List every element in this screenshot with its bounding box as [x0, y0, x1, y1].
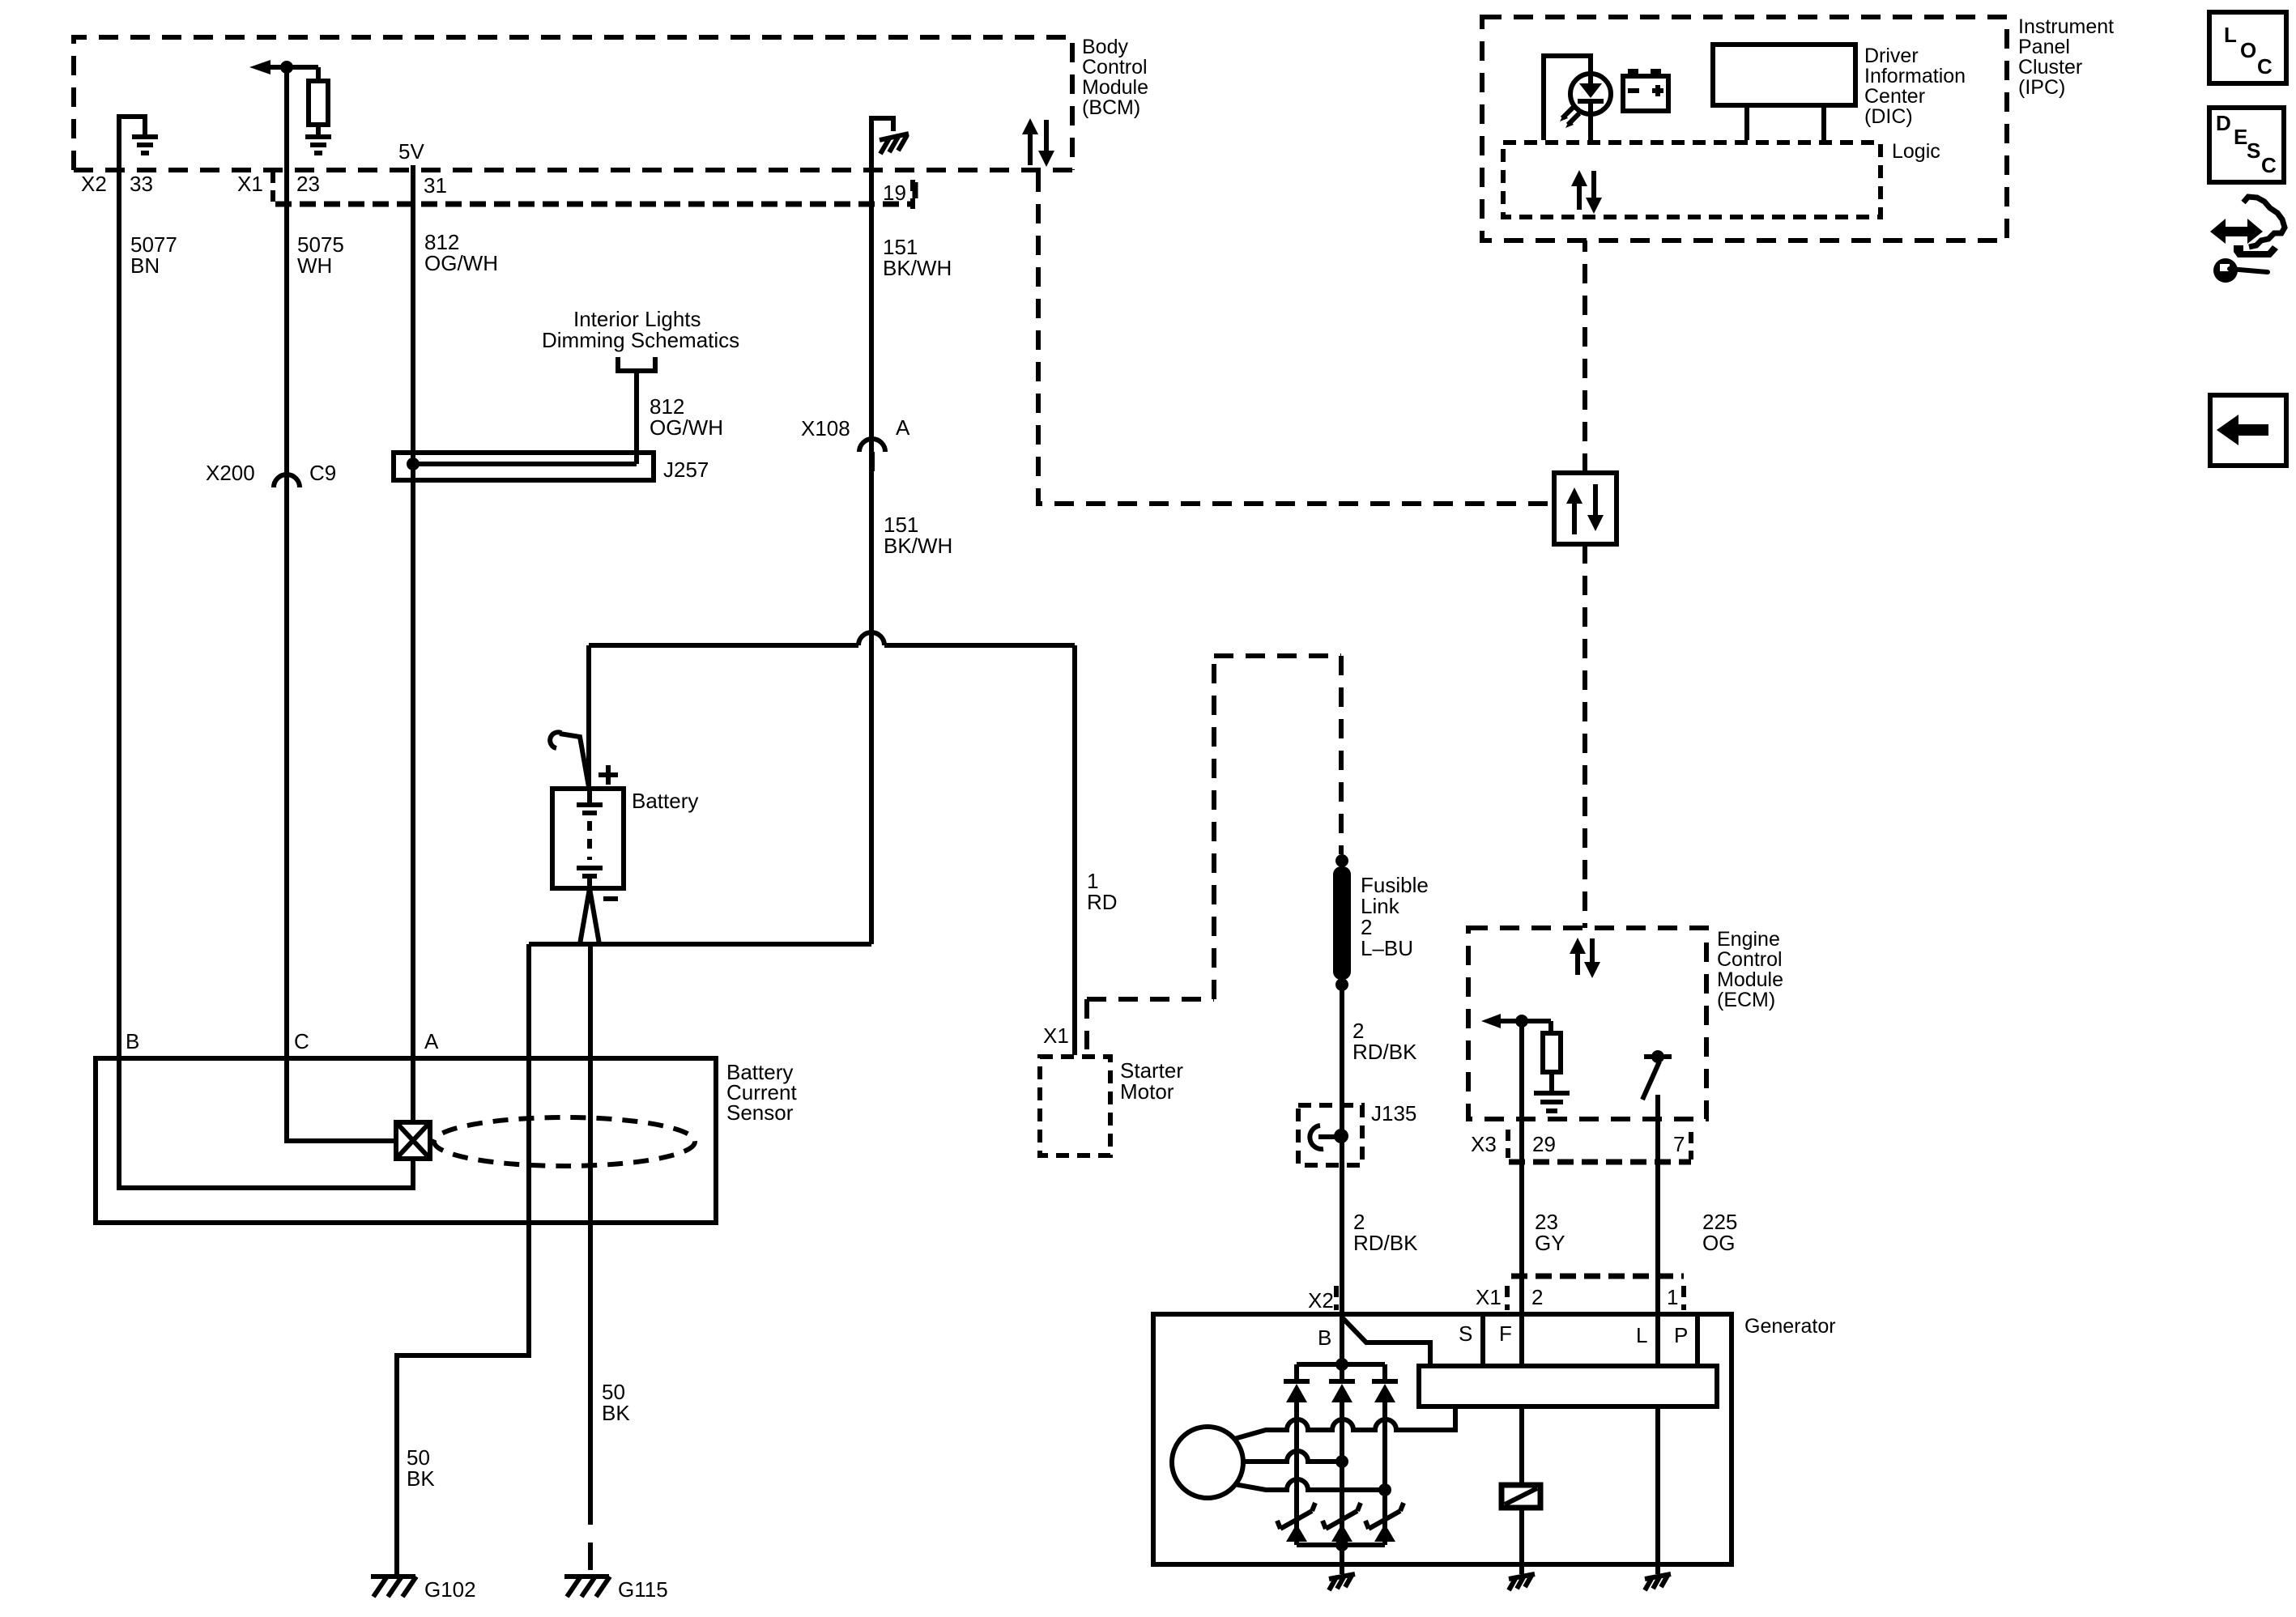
svg-text:(DIC): (DIC) [1864, 105, 1913, 128]
junction node phase bottom at diode 3 [1378, 1483, 1391, 1496]
svg-text:L: L [1636, 1323, 1647, 1347]
regulator bar [1419, 1366, 1717, 1406]
svg-text:Control: Control [1082, 56, 1148, 79]
connector stub at pin 7 [1689, 1132, 1693, 1160]
component box Starter Motor (dashed) [1040, 1057, 1110, 1155]
label 5077 BN [130, 232, 177, 278]
svg-text:C: C [2257, 54, 2273, 79]
diode 2 (middle) [1329, 1364, 1355, 1545]
svg-text:G102: G102 [424, 1577, 476, 1602]
wire F ground drop [1519, 1562, 1524, 1574]
svg-text:G115: G115 [618, 1577, 668, 1602]
wire sensor internal C to hall element [287, 1058, 396, 1141]
svg-text:J135: J135 [1371, 1101, 1416, 1126]
wire F through lamp to ground [1519, 1406, 1524, 1562]
junction node B at top bus [1335, 1358, 1348, 1371]
LED emission arrows [1560, 107, 1579, 128]
label 23 GY [1535, 1210, 1565, 1255]
svg-text:33: 33 [130, 172, 153, 196]
label Instrument Panel Cluster (IPC) [2018, 15, 2114, 99]
junction node phase mid at diode 2 [1335, 1455, 1348, 1468]
module box IPC (dashed) [1482, 17, 2007, 240]
svg-text:X108: X108 [801, 416, 850, 440]
wire 151 BK/WH (BCM pin 19 down) [869, 170, 874, 944]
svg-text:L: L [2224, 23, 2237, 47]
wire sensor internal B loop to hall element [119, 1058, 413, 1188]
wire telltale loop left leg [1544, 56, 1591, 140]
wire 812 OG/WH drop from fork to J257 [634, 371, 639, 464]
svg-text:WH: WH [297, 253, 332, 278]
component box Battery Current Sensor [96, 1058, 716, 1223]
connector stub X2 (dashed) [1334, 1286, 1339, 1310]
battery icon in IPC [1623, 69, 1668, 111]
wire 812 OG/WH (X1-31 to sensor A) [411, 165, 415, 1058]
wire 5077 BN (X2-33 to sensor B) [117, 170, 121, 1058]
svg-text:Generator: Generator [1744, 1315, 1836, 1338]
wire battery positive drop [586, 645, 591, 789]
wire dashed portion of G115 cable [588, 1497, 593, 1574]
svg-text:Module: Module [1717, 968, 1783, 991]
svg-text:BK: BK [602, 1401, 630, 1425]
arrows up/down at ECM data port [1570, 938, 1600, 978]
DIC display box [1713, 45, 1855, 140]
icon box LOC [2209, 12, 2286, 83]
wire dashed route starter to fusible link [1087, 656, 1341, 1049]
stator phase middle [1243, 1451, 1342, 1462]
switch (generator L monitor) in ECM [1642, 1050, 1672, 1119]
label Battery Current Sensor [726, 1060, 797, 1125]
svg-text:O: O [2240, 38, 2256, 62]
label 2 RD/BK (upper) [1352, 1019, 1417, 1064]
sense loop ellipse (dashed) [434, 1117, 695, 1166]
clip symbol on battery positive cable [550, 732, 589, 787]
svg-text:31: 31 [424, 173, 447, 198]
svg-text:E: E [2234, 125, 2247, 149]
label Body Control Module (BCM) [1082, 36, 1148, 119]
stator phase top (to regulator) [1234, 1406, 1455, 1439]
connector line BCM X1 (dotted) [275, 202, 915, 207]
svg-text:(ECM): (ECM) [1717, 989, 1775, 1011]
svg-text:RD/BK: RD/BK [1353, 1231, 1418, 1255]
svg-text:2: 2 [1531, 1285, 1543, 1309]
wire 5075 WH (X1-23 to sensor C) [284, 170, 289, 1058]
ground G102 symbol [371, 1577, 416, 1597]
wire B column into rectifier [1340, 1317, 1344, 1364]
svg-text:Instrument: Instrument [2018, 15, 2114, 38]
diode 3 (right) [1372, 1364, 1398, 1545]
module box BCM (Body Control Module, dashed) [74, 37, 1072, 170]
wire B ground drop [1340, 1545, 1344, 1574]
junction node on 5075 wire [280, 61, 293, 74]
wire dashed data line BCM to gateway [1038, 172, 1552, 504]
wire L/P drop to regulator [1655, 1314, 1660, 1366]
junction node fusible link top [1335, 854, 1348, 867]
resistor ECM pull-up [1543, 1021, 1561, 1072]
wire 1 RD (to starter motor) [1072, 645, 1077, 1055]
arrow ECM output (points left) [1481, 1014, 1551, 1028]
connector stub at pin 19 (dashed) [910, 180, 915, 209]
svg-text:S: S [2247, 138, 2260, 163]
hall element (X in box) [396, 1122, 430, 1159]
label 151 BK/WH (upper) [883, 235, 952, 280]
svg-text:Battery: Battery [632, 789, 698, 813]
svg-text:5V: 5V [398, 139, 424, 164]
connector line generator X1 (dotted) [1507, 1276, 1684, 1310]
label Starter Motor [1120, 1058, 1183, 1104]
icon box DESC [2209, 108, 2284, 182]
wire sensor internal A to hall element [411, 1058, 415, 1122]
label 5075 WH [297, 232, 344, 278]
svg-text:X200: X200 [206, 461, 255, 485]
wire dashed data line gateway to IPC [1582, 240, 1587, 473]
stator phase bottom [1234, 1479, 1385, 1490]
wire 5075 WH inside BCM [284, 67, 289, 170]
indicator LED telltale [1570, 74, 1611, 140]
wire BCM internal jog pin 19 [871, 118, 893, 170]
connector X108 arc on 151 wire [859, 439, 885, 471]
svg-text:GY: GY [1535, 1231, 1565, 1255]
junction node fusible link bottom [1335, 978, 1348, 991]
svg-text:S: S [1459, 1321, 1472, 1346]
wire ground cable left (to G102) [397, 944, 529, 1574]
fusible link element [1333, 866, 1351, 980]
svg-text:(BCM): (BCM) [1082, 96, 1140, 119]
svg-text:Logic: Logic [1892, 140, 1940, 163]
svg-text:29: 29 [1532, 1132, 1556, 1156]
wire negative bus horizontal [529, 942, 871, 947]
svg-text:Center: Center [1864, 85, 1925, 108]
svg-text:A: A [896, 415, 910, 440]
arrows up/down at BCM serial data port [1022, 118, 1054, 167]
label 50 BK (left cable) [407, 1445, 435, 1491]
component box Generator [1153, 1314, 1732, 1564]
svg-text:X3: X3 [1471, 1132, 1497, 1156]
svg-text:X1: X1 [237, 172, 263, 196]
svg-text:Panel: Panel [2018, 36, 2070, 58]
svg-text:C: C [2261, 153, 2277, 177]
wire B to S sense tap [1343, 1318, 1430, 1366]
label Fusible Link 2 L-BU [1361, 873, 1429, 960]
module box ECM (dashed) [1468, 928, 1706, 1119]
svg-text:OG: OG [1702, 1231, 1735, 1255]
zener diode 3 [1365, 1503, 1404, 1542]
wire ground cable right (to G115) [588, 944, 593, 1497]
svg-text:X2: X2 [1308, 1288, 1334, 1313]
wire BCM internal jog to ground (pin 33 net) [119, 117, 145, 170]
pin divider right of P [1695, 1317, 1700, 1366]
connector stub bottom at 19 [913, 182, 918, 204]
svg-text:OG/WH: OG/WH [424, 251, 498, 275]
svg-text:BK/WH: BK/WH [884, 534, 952, 558]
svg-text:Body: Body [1082, 36, 1128, 58]
connector X200 arc on 5075 wire [274, 474, 300, 504]
svg-text:Module: Module [1082, 76, 1148, 99]
svg-text:Driver: Driver [1864, 45, 1919, 67]
svg-text:B: B [126, 1029, 139, 1053]
ground earth symbol under ECM resistor [1534, 1072, 1570, 1111]
svg-text:Engine: Engine [1717, 928, 1780, 951]
wire 23 GY (ECM to generator F) [1519, 1119, 1524, 1314]
rectifier top bus [1297, 1362, 1385, 1367]
junction node bottom bus [1335, 1538, 1348, 1551]
ground G115 symbol [564, 1577, 610, 1597]
svg-text:A: A [424, 1029, 439, 1053]
junction node in J257 [407, 457, 420, 470]
label 225 OG [1702, 1210, 1737, 1255]
wire 225 OG (ECM to generator P) [1655, 1119, 1660, 1314]
svg-text:X2: X2 [81, 172, 107, 196]
svg-text:P: P [1674, 1323, 1688, 1347]
connector stub X3 (dashed) [1506, 1130, 1510, 1158]
rectifier bottom bus [1297, 1543, 1385, 1547]
svg-text:B: B [1318, 1326, 1331, 1350]
svg-text:BK/WH: BK/WH [883, 256, 952, 280]
zener diode 1 [1277, 1503, 1315, 1542]
svg-text:RD/BK: RD/BK [1352, 1040, 1417, 1064]
wire dashed data line gateway to ECM [1582, 544, 1587, 928]
svg-text:X1: X1 [1043, 1023, 1069, 1048]
ground earth symbol under BCM resistor [305, 125, 331, 153]
svg-text:Motor: Motor [1120, 1079, 1174, 1104]
svg-text:Dimming Schematics: Dimming Schematics [542, 328, 739, 352]
resistor BCM pull-up [309, 67, 328, 125]
chassis ground generator P [1645, 1574, 1671, 1590]
connector stub X1 (dashed) [270, 172, 275, 204]
svg-text:C9: C9 [309, 461, 336, 485]
label 812 OG/WH [424, 230, 498, 275]
svg-text:Information: Information [1864, 65, 1966, 87]
svg-text:C: C [294, 1029, 309, 1053]
svg-text:(IPC): (IPC) [2018, 76, 2065, 99]
svg-text:RD: RD [1087, 890, 1118, 914]
connector line ECM X3 (dotted) [1509, 1160, 1691, 1165]
serial data gateway box with arrows [1554, 473, 1617, 544]
wire 2 RD/BK (fusible link to generator B) [1340, 985, 1344, 1314]
svg-text:Control: Control [1717, 948, 1783, 971]
ground earth symbol inside BCM (left) [132, 137, 158, 153]
svg-text:F: F [1499, 1321, 1512, 1346]
splice symbol in J135 [1310, 1126, 1348, 1149]
svg-text:7: 7 [1673, 1132, 1685, 1156]
lamp element (box with slash) [1502, 1485, 1540, 1508]
svg-text:J257: J257 [663, 457, 709, 482]
wire F drop to regulator [1519, 1314, 1524, 1366]
svg-text:BK: BK [407, 1466, 435, 1491]
wire battery positive feed (horizontal with hop over 151) [589, 632, 1075, 645]
label Interior Lights Dimming Schematics [542, 307, 739, 352]
label + (battery positive) [598, 765, 618, 785]
wire P to ground [1655, 1406, 1660, 1574]
svg-text:OG/WH: OG/WH [650, 415, 723, 440]
svg-text:BN: BN [130, 253, 160, 278]
arrows up/down in logic box [1571, 170, 1602, 214]
label 2 RD/BK (lower) [1353, 1210, 1418, 1255]
svg-text:X1: X1 [1476, 1285, 1502, 1309]
arrow BCM output (points left) [249, 60, 318, 74]
chassis ground generator F [1509, 1574, 1535, 1590]
label 151 BK/WH (lower) [884, 513, 952, 558]
diode 1 (left) [1284, 1364, 1310, 1545]
label Engine Control Module (ECM) [1717, 928, 1783, 1011]
icon repair instructions (arrow and wrench) [2210, 197, 2285, 283]
splice pack J257 [394, 453, 654, 480]
label 50 BK (right cable) [602, 1380, 630, 1425]
svg-text:Cluster: Cluster [2018, 56, 2082, 79]
label 1 RD [1087, 869, 1118, 914]
label 812 OG/WH (at fork) [650, 394, 723, 440]
battery [552, 789, 624, 888]
zener diode 2 [1323, 1503, 1361, 1542]
label - (battery negative) [603, 896, 618, 901]
chassis ground symbol inside BCM (pin 19) [880, 134, 909, 154]
svg-text:Sensor: Sensor [726, 1100, 794, 1125]
splice J135 (dashed box) [1298, 1105, 1362, 1165]
junction node ECM pin 29 net [1515, 1015, 1528, 1028]
logic box (dashed) [1503, 143, 1881, 217]
svg-text:D: D [2216, 111, 2231, 135]
svg-text:L–BU: L–BU [1361, 936, 1413, 960]
connector fork to Interior Lights schematic [618, 357, 655, 371]
stator winding circle [1172, 1427, 1243, 1498]
pin divider S/F [1480, 1317, 1485, 1366]
wire ECM pin 29 (23 GY) [1519, 1021, 1524, 1119]
wire battery negative splice (Y) [580, 888, 599, 944]
chassis ground generator B [1329, 1574, 1355, 1590]
svg-text:23: 23 [296, 172, 320, 196]
label Driver Information Center (DIC) [1864, 45, 1966, 128]
svg-text:1: 1 [1667, 1285, 1678, 1309]
icon box back arrow [2210, 395, 2286, 466]
